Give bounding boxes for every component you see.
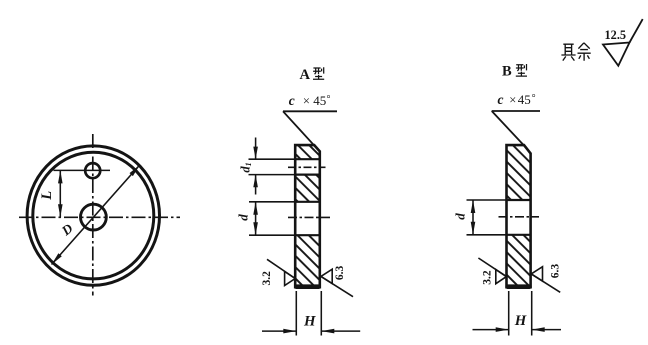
d dimension arrow down A: [253, 222, 258, 235]
svg-text:×: ×: [303, 94, 310, 108]
roughness 3.2 symbol of B: [478, 258, 506, 284]
d1 extension line bottom: [249, 174, 296, 176]
svg-text:°: °: [532, 93, 536, 104]
d dimension line B: [472, 200, 474, 235]
section B hole d top line: [507, 199, 531, 201]
svg-text:45: 45: [518, 92, 531, 107]
inner circle of disc (diameter D): [33, 152, 154, 279]
section A hatch bottom: [295, 235, 320, 286]
H dimension right arrow A: [321, 330, 360, 332]
dimension D arrow lower: [52, 253, 62, 264]
svg-text:H: H: [514, 313, 527, 329]
roughness 6.3 symbol of B: [531, 267, 560, 293]
leader c x 45 of B: slant: [492, 111, 525, 146]
section A hole d top line: [295, 201, 320, 203]
section A bottom thick edge: [296, 284, 318, 289]
H dimension left arrow B: [473, 329, 509, 331]
general roughness symbol: [603, 19, 643, 66]
H extension line right B: [531, 291, 533, 336]
svg-text:45: 45: [313, 93, 326, 108]
H dimension right arrow B: [532, 329, 561, 331]
d1 extension line top: [249, 158, 296, 160]
svg-text:6.3: 6.3: [550, 264, 562, 279]
d dimension arrow down B: [471, 222, 476, 235]
d dimension arrow up A: [253, 202, 258, 215]
d centerline of A: [288, 216, 331, 218]
section B hole d bottom line: [507, 234, 531, 236]
label qiyu (rest) glyph qi: [561, 44, 575, 61]
H dimension left arrow A: [262, 330, 296, 332]
svg-text:12.5: 12.5: [605, 28, 627, 42]
horizontal centerline: [19, 216, 180, 218]
d dimension arrow up B: [471, 200, 476, 213]
svg-text:A: A: [300, 67, 311, 83]
dimension L line: [59, 170, 61, 217]
section B hatch top: [507, 145, 531, 200]
svg-text:d: d: [235, 214, 250, 221]
svg-text:B: B: [502, 64, 512, 80]
roughness 6.3 symbol of A: [321, 269, 353, 297]
dimension L arrow down: [58, 204, 63, 217]
d1 dimension lower tail: [255, 175, 257, 195]
svg-text:×: ×: [509, 93, 516, 107]
H extension line right A: [320, 291, 322, 336]
svg-text:H: H: [303, 314, 316, 330]
small hole horizontal line: [54, 169, 111, 171]
section B hatch bottom: [507, 235, 531, 286]
dimension D arrow upper: [130, 165, 140, 176]
label qiyu (rest) glyph yu: [578, 43, 591, 61]
section A hole d1 top line: [295, 158, 320, 160]
small hole d1: [85, 163, 100, 178]
svg-text:d: d: [452, 213, 467, 220]
outer circle of disc: [27, 146, 159, 285]
section A outline: [295, 145, 320, 288]
svg-text:°: °: [327, 94, 331, 105]
d centerline of B: [499, 216, 540, 218]
leader c x 45 of B: horizontal: [492, 110, 540, 112]
section A hole d1 bottom line: [295, 174, 320, 176]
section B bottom thick edge: [508, 284, 530, 289]
d1 dimension arrow up: [253, 175, 258, 188]
svg-text:L: L: [39, 191, 55, 201]
H extension line left A: [295, 291, 297, 336]
H extension line left B: [508, 291, 510, 336]
dimension L arrow up: [58, 170, 63, 183]
roughness 3.2 symbol of A: [267, 259, 295, 285]
label xing (type) glyph B: [516, 64, 527, 76]
svg-text:c: c: [289, 93, 295, 108]
svg-text:c: c: [498, 92, 504, 107]
d extension line top A: [249, 201, 295, 203]
center hole d: [81, 204, 107, 230]
section A hatch top: [295, 145, 320, 159]
leader c x 45 of A: slant: [283, 111, 315, 146]
d extension line bottom B: [467, 234, 507, 236]
section B outline: [507, 145, 531, 288]
d1 centerline: [288, 166, 326, 168]
section A hole d bottom line: [295, 234, 320, 236]
svg-text:6.3: 6.3: [334, 265, 346, 280]
d extension line bottom A: [249, 234, 295, 236]
svg-text:3.2: 3.2: [261, 271, 273, 286]
d extension line top B: [467, 199, 507, 201]
leader c x 45 of A: horizontal: [283, 110, 337, 112]
vertical centerline: [92, 134, 94, 296]
section A hatch middle: [295, 175, 320, 202]
label xing (type) glyph A: [313, 67, 324, 79]
svg-text:3.2: 3.2: [482, 270, 494, 285]
d1 dimension arrow down: [253, 147, 258, 160]
dimension D line: [52, 165, 140, 265]
d dimension line A: [255, 202, 257, 235]
d1 dimension upper tail: [255, 138, 257, 160]
